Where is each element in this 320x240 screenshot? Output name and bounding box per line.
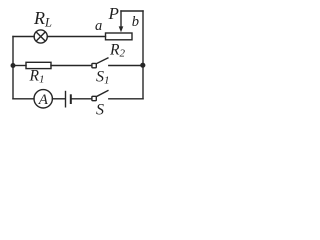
svg-text:P: P <box>108 4 119 23</box>
node junction right <box>140 63 145 68</box>
svg-text:a: a <box>95 18 102 34</box>
battery cell short plate <box>70 95 72 103</box>
wire top left segment <box>13 36 34 38</box>
switch S <box>92 91 108 101</box>
svg-text:S: S <box>96 102 104 119</box>
wire S1 to right <box>109 65 143 67</box>
wire ammeter to battery <box>52 98 64 100</box>
node junction left <box>11 63 16 68</box>
wire lamp to rheostat <box>47 36 105 38</box>
svg-text:R2: R2 <box>109 41 125 59</box>
svg-text:b: b <box>132 14 139 30</box>
wire R1 to S1 <box>51 65 92 67</box>
svg-text:R1: R1 <box>29 67 45 85</box>
ammeter A <box>34 90 52 108</box>
switch S1 <box>92 58 108 68</box>
svg-text:A: A <box>38 92 49 108</box>
battery cell long plate <box>65 92 67 107</box>
wire S to bottom right corner <box>109 98 143 100</box>
wire battery to S <box>72 98 92 100</box>
lamp RL <box>34 30 47 43</box>
wire right vertical <box>142 11 144 99</box>
resistor R1 <box>26 62 51 68</box>
rheostat R2 body <box>106 33 133 40</box>
wire slider to top right corner <box>121 10 143 12</box>
wire bottom left <box>13 98 34 100</box>
svg-text:RL: RL <box>33 8 52 30</box>
wire left vertical <box>12 37 14 99</box>
svg-text:S1: S1 <box>96 68 110 86</box>
wire middle row left <box>13 65 26 67</box>
rheostat slider P arrow <box>119 11 124 32</box>
